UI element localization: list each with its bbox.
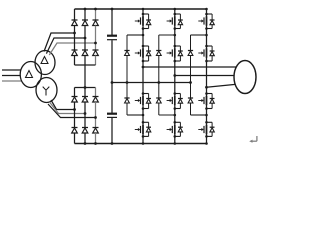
- wire: inverter leg A main vertical: [142, 8, 145, 145]
- rectifier bridge2 leg 2 (diodes D8/D11): [82, 88, 88, 144]
- IGBT Q5 with freewheel diode (leg B row 1): [167, 13, 183, 30]
- wire: bridge2 positive join: [75, 87, 96, 89]
- wire: secondary1 phase c to rectifier column 3: [49, 43, 95, 55]
- IGBT Q8 with freewheel diode (leg B row 4): [167, 121, 183, 138]
- IGBT Q3 with freewheel diode (leg A row 3): [135, 92, 151, 110]
- wire: secondary1 phase a to rectifier column 1: [44, 33, 75, 52]
- wire: capacitor column lower lead: [111, 118, 114, 145]
- IGBT Q12 with freewheel diode (leg C row 4): [198, 121, 214, 138]
- paragraph return mark: [249, 136, 257, 143]
- transformer T1 primary winding (delta): [20, 62, 41, 88]
- IGBT Q7 with freewheel diode (leg B row 3): [167, 92, 183, 110]
- clamp diodes D13/D14 (leg A): [124, 34, 144, 117]
- rectifier bridge1 junction dots on positive bus: [84, 8, 97, 11]
- wire: three-phase input line L3: [2, 80, 21, 82]
- wire: three-phase input line L1: [2, 69, 21, 71]
- rectifier bridge1 leg 3 (diodes D3/D6): [93, 9, 99, 65]
- IGBT Q6 with freewheel diode (leg B row 2): [167, 45, 183, 63]
- capacitor C2: [107, 114, 117, 118]
- IGBT Q11 with freewheel diode (leg C row 3): [198, 92, 214, 110]
- IGBT Q10 with freewheel diode (leg C row 2): [198, 45, 214, 63]
- transformer T1 secondary 1 delta symbol: [41, 57, 48, 64]
- motor M1: [234, 61, 256, 94]
- rectifier bridge2 leg 3 (diodes D9/D12): [93, 88, 99, 144]
- wire: phase B output to motor: [173, 74, 234, 77]
- clamp diodes D15/D16 (leg B): [156, 34, 176, 117]
- wire: inverter leg B main vertical: [174, 8, 177, 145]
- rectifier bridge2 leg 1 (diodes D7/D10): [72, 88, 78, 144]
- wire: negative DC bus: [75, 143, 207, 145]
- transformer T1 secondary 2 wye symbol: [43, 87, 50, 96]
- wire: phase C output to motor: [205, 84, 235, 88]
- wire: capacitor column upper lead: [111, 8, 114, 35]
- rectifier bridge1 leg 1 (diodes D1/D4): [72, 9, 78, 65]
- wire: capacitor column middle lead: [111, 40, 114, 113]
- wire: inverter leg C main vertical: [205, 8, 208, 145]
- wire: neutral bus: [112, 82, 191, 84]
- wire: secondary1 phase b to rectifier column 2: [46, 38, 85, 54]
- clamp diodes D17/D18 (leg C): [188, 34, 208, 117]
- rectifier bridge1 leg 2 (diodes D2/D5): [82, 9, 88, 65]
- wire: secondary2 phase b to rectifier column 2: [50, 102, 86, 114]
- IGBT Q9 with freewheel diode (leg C row 1): [198, 13, 214, 30]
- wire: bridge2 series link dot: [84, 86, 87, 89]
- IGBT Q4 with freewheel diode (leg A row 4): [135, 121, 151, 138]
- transformer T1 secondary winding 1 (delta): [35, 51, 55, 75]
- wire: phase A output to motor: [142, 66, 237, 69]
- rectifier bridge2 junction dots on negative bus: [84, 142, 97, 145]
- wire: bridge1 negative join: [75, 64, 96, 66]
- capacitor C1: [107, 36, 117, 40]
- transformer T1 primary delta symbol: [26, 71, 33, 78]
- wire: three-phase input line L2: [2, 75, 21, 77]
- wire: secondary2 phase c to rectifier column 3: [48, 104, 96, 118]
- IGBT Q2 with freewheel diode (leg A row 2): [135, 45, 151, 63]
- wire: secondary2 phase a to rectifier column 1: [51, 100, 75, 110]
- wire: positive DC bus: [75, 8, 207, 10]
- wire: bridge1 to bridge2 series link: [84, 65, 86, 88]
- IGBT Q1 with freewheel diode (leg A row 1): [135, 13, 151, 30]
- transformer T1 secondary winding 2 (wye): [36, 78, 57, 103]
